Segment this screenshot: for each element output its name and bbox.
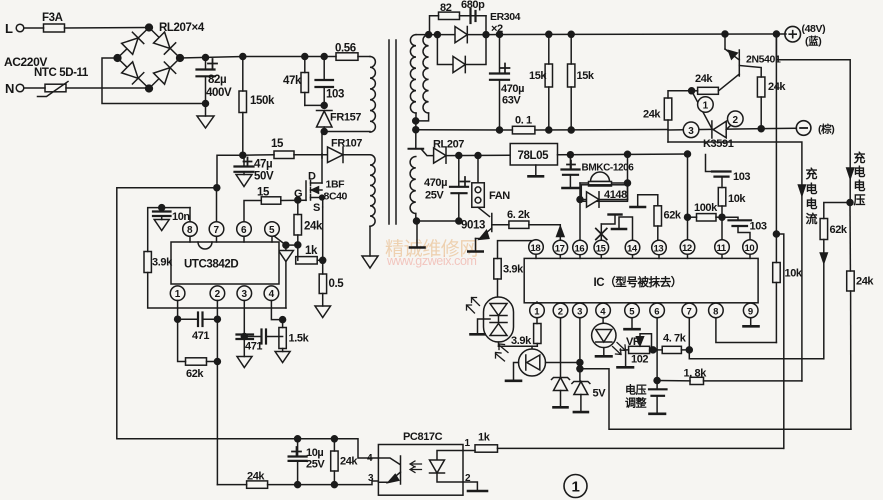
svg-text:L: L	[5, 21, 13, 36]
pin 5 U1	[265, 222, 286, 245]
resonator BMKC-1206	[580, 151, 634, 199]
svg-text:150k: 150k	[250, 95, 275, 107]
resistor 150k	[239, 57, 275, 156]
svg-text:2: 2	[733, 115, 739, 126]
svg-text:63V: 63V	[502, 95, 521, 107]
pin 2 U1	[210, 286, 225, 485]
svg-text:2: 2	[558, 306, 563, 317]
svg-text:13: 13	[654, 244, 664, 255]
pin 3 U2	[573, 303, 588, 381]
transformer primary winding	[370, 57, 375, 133]
capacitor 470u 25V	[417, 153, 470, 225]
ground arrow 471	[237, 357, 252, 368]
svg-text:0.5: 0.5	[329, 278, 345, 290]
resistor 24k collector	[757, 77, 786, 132]
resistor 24k gate	[294, 200, 323, 260]
svg-text:电: 电	[806, 181, 818, 196]
resistor 15 vcc	[271, 138, 328, 159]
svg-text:4: 4	[269, 289, 275, 300]
resistor 15k b	[568, 34, 595, 133]
svg-text:471: 471	[192, 330, 209, 342]
wire battery feedback	[773, 231, 783, 448]
node pin3 feedback	[577, 360, 851, 430]
pin 3 U1	[237, 286, 252, 334]
terminal plus 48V	[785, 23, 825, 48]
svg-text:1k: 1k	[305, 245, 318, 257]
fuse F3A	[24, 12, 149, 32]
zener pin2	[552, 378, 570, 408]
test point 2	[726, 111, 743, 130]
test point 3	[683, 122, 699, 138]
resistor 6.2k	[507, 209, 560, 233]
ground arrow 0.5	[315, 306, 331, 318]
led optocell	[496, 344, 580, 381]
svg-text:1: 1	[703, 101, 709, 112]
svg-text:9013: 9013	[461, 220, 485, 232]
pin 18 U2	[498, 240, 544, 259]
svg-text:流: 流	[806, 211, 818, 226]
svg-text:D: D	[308, 171, 316, 183]
node vref	[159, 205, 190, 211]
svg-text:8C40: 8C40	[324, 191, 348, 203]
svg-text:1: 1	[572, 479, 580, 496]
resistor 62k pin13	[638, 195, 682, 259]
svg-text:电: 电	[854, 178, 866, 193]
ground arrow aux	[362, 256, 378, 268]
transformer core	[389, 40, 396, 224]
svg-text:680p: 680p	[461, 0, 485, 11]
pin 2 U2	[553, 303, 568, 376]
regulator 78L05	[510, 144, 687, 177]
resistor 62k pin1	[178, 319, 221, 380]
wire charge current	[668, 142, 805, 381]
resistor 10k sense	[773, 34, 803, 343]
terminal L	[5, 21, 24, 36]
svg-text:24k: 24k	[643, 109, 661, 121]
transformer aux winding	[370, 155, 375, 256]
resistor 4.7k	[662, 333, 692, 354]
svg-text:18: 18	[531, 243, 541, 254]
capacitor pin6	[649, 378, 667, 414]
diode RL207	[421, 139, 510, 164]
pin 8 U2	[709, 303, 777, 342]
resistor 82 snubber	[430, 2, 487, 35]
svg-text:50V: 50V	[254, 171, 274, 183]
svg-text:24k: 24k	[695, 73, 713, 85]
pin 15 U2 with X	[594, 215, 622, 259]
IC U2 (erased marking)	[524, 258, 758, 302]
optocoupler PC817C	[367, 431, 471, 495]
wire minus rail	[668, 128, 796, 130]
transformer secondary winding A	[410, 35, 416, 130]
svg-text:16: 16	[575, 244, 585, 255]
svg-text:10µ: 10µ	[306, 447, 323, 459]
transformer secondary winding B	[413, 35, 429, 124]
svg-text:PC817C: PC817C	[403, 431, 443, 443]
svg-text:NTC 5D-11: NTC 5D-11	[34, 67, 89, 79]
svg-text:7: 7	[214, 225, 220, 236]
wire charge voltage branch	[776, 34, 853, 206]
svg-text:(蓝): (蓝)	[805, 35, 821, 48]
pin 16 U2	[573, 240, 588, 258]
resistor 10k a	[718, 188, 746, 241]
svg-text:470µ: 470µ	[501, 83, 524, 95]
capacitor 471 pin3	[237, 335, 263, 357]
pin 12 U2 vcc	[680, 151, 695, 258]
resistor 0.56	[335, 43, 370, 61]
svg-text:6. 2k: 6. 2k	[507, 209, 531, 221]
resistor 47k	[283, 54, 324, 106]
svg-text:3: 3	[688, 126, 694, 137]
ground bar pin13 hook	[631, 206, 646, 209]
svg-text:25V: 25V	[306, 459, 325, 471]
svg-text:62k: 62k	[830, 224, 848, 236]
pin 7 U1	[209, 188, 224, 242]
pin 1 U1	[170, 286, 185, 319]
svg-text:470µ: 470µ	[424, 177, 447, 189]
resistor 3.9k U1	[144, 208, 286, 308]
svg-text:103: 103	[750, 221, 767, 233]
svg-text:3: 3	[368, 473, 374, 484]
diode FR157	[317, 102, 362, 131]
svg-text:电: 电	[854, 164, 866, 179]
svg-text:11: 11	[717, 243, 727, 254]
svg-text:2: 2	[215, 289, 221, 300]
svg-text:3.9k: 3.9k	[503, 264, 524, 276]
svg-text:1k: 1k	[478, 432, 491, 444]
svg-text:24k: 24k	[856, 276, 874, 288]
diode ER304 a	[437, 11, 520, 43]
svg-text:103: 103	[326, 89, 344, 101]
svg-text:82µ: 82µ	[208, 74, 226, 86]
svg-text:103: 103	[733, 171, 750, 183]
transistor 2N5401	[718, 34, 781, 91]
resistor 3.9k pin1	[511, 318, 541, 347]
pin 14 U2	[619, 217, 640, 258]
zener 5V pin3	[572, 382, 606, 413]
svg-text:15k: 15k	[577, 70, 595, 82]
svg-text:UTC3842D: UTC3842D	[184, 259, 238, 271]
svg-text:400V: 400V	[206, 87, 232, 99]
svg-text:47k: 47k	[283, 75, 302, 87]
wire rail to snubber	[243, 56, 336, 58]
capacitor 10u 25V	[289, 439, 326, 485]
diode FR107	[328, 138, 371, 163]
svg-text:8: 8	[187, 225, 193, 236]
svg-text:1.5k: 1.5k	[289, 333, 310, 345]
pin 8 U1	[183, 208, 198, 242]
svg-text:100k: 100k	[694, 202, 718, 214]
pin 10 U2	[743, 240, 758, 259]
label charge voltage	[854, 150, 866, 207]
svg-text:充: 充	[806, 166, 818, 181]
capacitor CT	[241, 330, 282, 344]
mosfet 1BF 8C40	[294, 154, 348, 214]
svg-text:10k: 10k	[728, 193, 746, 205]
source sense node	[320, 207, 326, 274]
svg-text:5V: 5V	[593, 388, 607, 400]
ground sec2	[410, 218, 425, 248]
wire pin2 pc817 ground	[463, 482, 487, 491]
ground arrow below cap	[197, 104, 214, 129]
diode 4148	[577, 183, 628, 240]
resistor 24k left	[643, 91, 692, 142]
capacitor 10n	[153, 208, 190, 223]
watermark	[385, 238, 478, 268]
wire sec top rail	[416, 32, 440, 38]
svg-text:RL207: RL207	[433, 139, 464, 151]
capacitor 471 pins1-2	[175, 313, 221, 343]
ground arrow 10n	[154, 220, 169, 231]
svg-text:10n: 10n	[172, 211, 190, 223]
svg-text:FR107: FR107	[331, 138, 362, 150]
dual led indicator	[467, 297, 514, 342]
wire oval bottom	[499, 342, 538, 346]
svg-text:14: 14	[627, 244, 638, 255]
ground arrow pin5	[278, 251, 293, 262]
pin 17 U2	[553, 240, 568, 258]
svg-text:15: 15	[271, 138, 284, 150]
wire mid rail	[413, 127, 513, 133]
svg-text:调整: 调整	[625, 396, 647, 410]
svg-text:7: 7	[687, 306, 692, 317]
pin 6 U2	[650, 303, 665, 389]
svg-text:电压: 电压	[625, 383, 647, 397]
svg-text:电: 电	[806, 196, 818, 211]
resistor 24k feedback	[331, 439, 359, 485]
svg-text:10: 10	[745, 243, 755, 254]
capacitor 78l05 out	[562, 152, 580, 188]
svg-text:24k: 24k	[304, 221, 323, 233]
circled 1 figure mark	[564, 475, 587, 498]
svg-text:17: 17	[555, 244, 565, 255]
svg-text:BMKC-1206: BMKC-1206	[582, 163, 635, 174]
resistor 0.5	[319, 274, 344, 306]
wire N to bridge	[66, 87, 146, 89]
resistor 24k base	[689, 73, 719, 94]
svg-text:3.9k: 3.9k	[152, 257, 173, 269]
resistor 1.5k	[279, 320, 310, 352]
svg-text:102: 102	[631, 354, 648, 366]
wire vcc node	[217, 152, 274, 188]
arrow into pin17	[557, 227, 564, 241]
thermistor NTC 5D-11	[24, 67, 89, 97]
resistor 62k charge	[820, 203, 850, 359]
resistor 24k charge	[847, 203, 875, 430]
resistor 15 gate	[244, 187, 281, 222]
svg-text:24k: 24k	[768, 81, 786, 93]
svg-text:N: N	[5, 81, 14, 96]
svg-text:15k: 15k	[529, 70, 547, 82]
pin 1 U2	[530, 302, 545, 318]
svg-text:25V: 25V	[425, 190, 444, 202]
svg-text:78L05: 78L05	[518, 150, 550, 162]
wire feedback bottom	[295, 436, 379, 458]
capacitor 103 snubber	[316, 54, 345, 109]
led pin4	[592, 323, 626, 356]
svg-text:6: 6	[654, 306, 659, 317]
bridge rectifier RL207x4	[114, 22, 205, 92]
resistor 0.1	[512, 115, 668, 134]
label voltage adjust	[625, 383, 647, 410]
wire bridge positive to cap	[180, 57, 243, 59]
capacitor 103 b	[706, 155, 751, 188]
ground node pin5	[283, 242, 298, 308]
svg-text:F3A: F3A	[42, 12, 63, 24]
pin 9 U2	[743, 303, 758, 326]
svg-text:6: 6	[241, 225, 247, 236]
IC U1 UTC3842D	[171, 242, 279, 284]
terminal minus	[796, 121, 834, 136]
potentiometer VR 102	[618, 334, 663, 368]
svg-text:471: 471	[245, 341, 262, 353]
svg-text:K3591: K3591	[703, 138, 734, 150]
svg-text:47µ: 47µ	[254, 159, 272, 171]
svg-text:www.gzweix.com: www.gzweix.com	[386, 254, 477, 268]
pin 11 U2	[715, 240, 730, 259]
svg-text:24k: 24k	[340, 456, 358, 468]
ground arrow 1.5k	[275, 352, 290, 363]
transistor 9013	[461, 207, 509, 251]
resistor 3.9k pin18	[494, 259, 524, 298]
svg-text:10k: 10k	[785, 268, 803, 280]
resistor 24k bottom	[217, 471, 378, 489]
fan motor	[472, 153, 510, 208]
wire primary bottom / drain node	[321, 129, 370, 159]
svg-text:1: 1	[175, 289, 181, 300]
capacitor 47u 50V	[235, 155, 274, 182]
svg-text:1: 1	[465, 438, 471, 449]
pin 5 U2	[625, 303, 640, 329]
ground bar pin14	[612, 228, 626, 231]
svg-text:4. 7k: 4. 7k	[663, 333, 687, 345]
svg-text:4: 4	[367, 453, 373, 464]
terminal N	[5, 81, 24, 96]
svg-text:压: 压	[854, 193, 866, 207]
resistor 1.8k	[657, 368, 802, 385]
svg-text:(48V): (48V)	[802, 23, 826, 35]
test point 1	[692, 91, 714, 129]
svg-text:S: S	[313, 202, 320, 214]
svg-text:(棕): (棕)	[818, 123, 834, 136]
svg-text:62k: 62k	[186, 368, 204, 380]
resistor 100k	[688, 202, 723, 221]
pin 4 U1	[264, 286, 286, 323]
capacitor 82u 400V	[197, 55, 232, 107]
capacitor 680p	[461, 0, 485, 23]
ground arrow 47u	[236, 172, 252, 187]
svg-text:IC（型号被抹去）: IC（型号被抹去）	[594, 275, 682, 289]
transformer secondary winding C	[409, 130, 424, 221]
svg-text:3: 3	[242, 289, 248, 300]
svg-text:8: 8	[713, 306, 718, 317]
svg-text:15: 15	[596, 244, 607, 255]
svg-text:62k: 62k	[664, 210, 682, 222]
svg-text:3.9k: 3.9k	[511, 335, 532, 347]
wire bridge negative to rail	[102, 58, 206, 104]
diode K3591	[703, 121, 734, 150]
svg-text:5: 5	[269, 225, 275, 236]
svg-text:充: 充	[854, 150, 866, 165]
svg-text:ER304: ER304	[490, 11, 521, 23]
capacitor 470u 63V	[490, 34, 524, 133]
svg-text:9: 9	[748, 306, 753, 317]
resistor 1k	[295, 242, 323, 264]
wire gate node	[281, 197, 306, 203]
wire plus rail top	[486, 31, 786, 37]
pin 4 U2	[596, 303, 611, 323]
resistor 1k output	[463, 432, 784, 453]
svg-text:1BF: 1BF	[326, 179, 346, 191]
svg-text:FR157: FR157	[330, 112, 361, 124]
pin 7 U2	[682, 303, 823, 359]
label charge current	[806, 166, 818, 226]
capacitor 103 c	[722, 217, 767, 240]
resistor 15k a	[529, 34, 553, 133]
diode ER304 b	[437, 35, 486, 73]
svg-text:12: 12	[682, 243, 692, 254]
svg-text:RL207×4: RL207×4	[159, 22, 205, 34]
svg-text:3: 3	[577, 306, 582, 317]
node main HV rail	[240, 54, 246, 60]
wire vcc left rail	[117, 185, 298, 439]
pin 6 U1	[237, 222, 252, 242]
svg-text:FAN: FAN	[489, 190, 510, 202]
svg-text:0. 1: 0. 1	[515, 115, 532, 127]
